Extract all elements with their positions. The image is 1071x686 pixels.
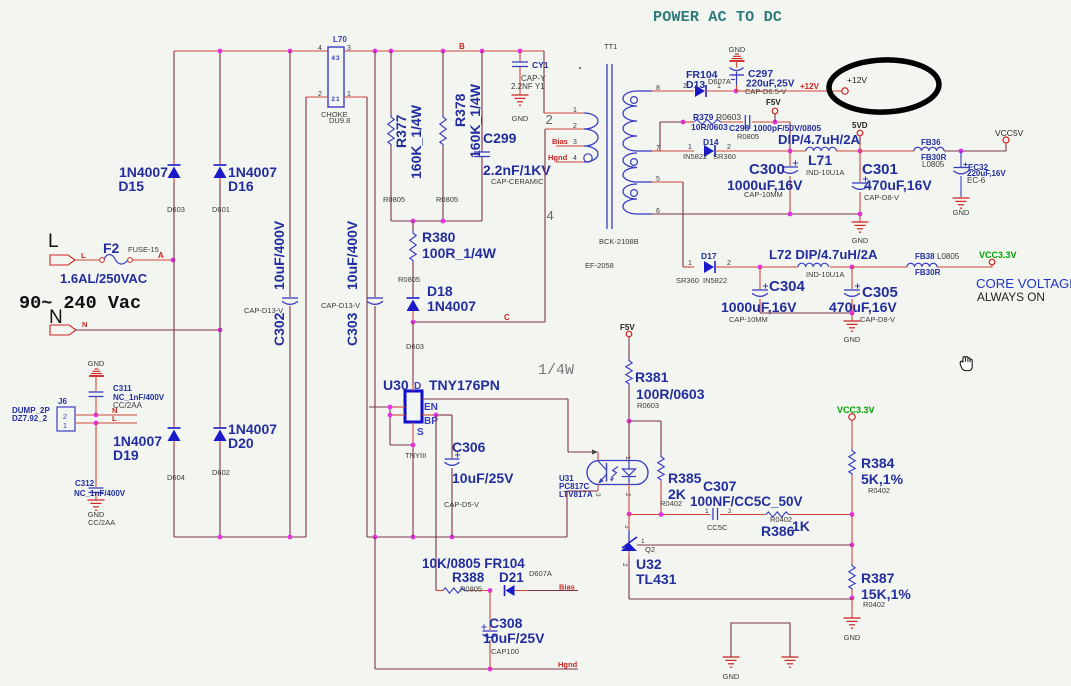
svg-text:DIP/4.7uH/2A: DIP/4.7uH/2A <box>778 132 861 147</box>
svg-text:FB38: FB38 <box>915 252 935 261</box>
ground below C312 <box>88 500 116 527</box>
svg-text:POWER AC TO DC: POWER AC TO DC <box>653 8 782 26</box>
diode D13 FR104 <box>686 69 736 97</box>
svg-text:D16: D16 <box>228 178 254 194</box>
svg-text:J6: J6 <box>58 397 67 406</box>
svg-text:D17: D17 <box>701 251 717 261</box>
svg-text:CAP-D8-V: CAP-D8-V <box>864 193 899 202</box>
svg-text:R0402: R0402 <box>868 486 890 495</box>
junction C306 bottom <box>450 535 455 540</box>
svg-text:1N4007: 1N4007 <box>427 298 476 314</box>
capacitor C299 2.2nF/1KV <box>474 51 551 221</box>
wire U30 EN to optocoupler <box>422 399 598 455</box>
svg-text:NC_1nF/400V: NC_1nF/400V <box>74 489 126 498</box>
junction C308 top <box>488 588 493 593</box>
svg-text:U32: U32 <box>636 556 662 572</box>
wire C304/C305 bottom <box>760 312 852 314</box>
wire pin 7 riser to snubber <box>652 122 683 151</box>
hand cursor annotation <box>960 357 972 371</box>
junction U30 source corner <box>411 443 416 448</box>
svg-text:D14: D14 <box>703 137 719 147</box>
junction C305 top <box>850 265 855 270</box>
svg-text:470uF,16V: 470uF,16V <box>864 177 932 193</box>
svg-text:10R/0603: 10R/0603 <box>691 122 728 132</box>
wire bridge column 1 (x=174) <box>173 51 175 537</box>
junction top rail at D16 <box>218 49 223 54</box>
junction R381 bottom <box>627 419 632 424</box>
junction R380 top <box>411 219 416 224</box>
junction C312 top <box>94 421 99 426</box>
svg-text:1: 1 <box>688 260 692 267</box>
inductor L71 DIP/4.7uH/2A <box>778 132 914 177</box>
junction top rail at R377 <box>389 49 394 54</box>
junction top rail at C299 <box>480 49 485 54</box>
resistor R388 10K/0805 <box>436 585 490 594</box>
junction L71 right / C301 / 5VD <box>858 149 863 154</box>
title POWER AC TO DC <box>653 8 782 26</box>
svg-text:S: S <box>417 427 424 438</box>
svg-text:3: 3 <box>573 139 577 146</box>
svg-text:R388: R388 <box>452 570 485 585</box>
svg-text:2: 2 <box>621 563 628 567</box>
diode D19 1N4007 <box>113 423 185 482</box>
svg-text:C302: C302 <box>271 312 287 346</box>
svg-text:L: L <box>112 414 117 423</box>
port +12V <box>842 75 868 94</box>
svg-text:R0603: R0603 <box>716 112 741 122</box>
resistor R386 1K <box>761 512 810 539</box>
wire C307 row <box>629 514 852 516</box>
wire divider mid to ref row <box>851 515 853 546</box>
wire bridge column 2 (x=220) <box>219 51 221 537</box>
wire U30 drain net <box>412 322 414 391</box>
annotation ellipse around +12V <box>828 58 940 114</box>
svg-text:1: 1 <box>688 144 692 151</box>
svg-text:CORE VOLTAGE: CORE VOLTAGE <box>976 276 1071 291</box>
grey marker 2 <box>546 112 553 127</box>
ground pin 6 rail <box>852 214 869 245</box>
svg-text:R380: R380 <box>422 229 456 245</box>
transformer TT1 secondary winding 7-5 <box>623 153 637 182</box>
svg-text:A: A <box>158 251 164 260</box>
resistor R381 100R/0603 <box>626 337 705 421</box>
svg-text:R0805: R0805 <box>737 132 759 141</box>
svg-text:IN5822: IN5822 <box>683 152 707 161</box>
svg-text:C312: C312 <box>75 479 95 488</box>
diode D16 1N4007 <box>212 160 277 214</box>
wire U30 source down <box>390 422 413 537</box>
svg-text:1/4W: 1/4W <box>538 362 574 379</box>
wire pin 7 row <box>652 144 694 151</box>
svg-text:1K: 1K <box>792 518 810 534</box>
transformer TT1 secondary winding 5-6 <box>623 184 637 214</box>
svg-text:Bias: Bias <box>559 583 575 592</box>
connector J6 DUMP_2P <box>12 397 75 431</box>
label 90~ 240 Vac <box>19 293 141 314</box>
svg-text:CAP100: CAP100 <box>491 647 519 656</box>
svg-text:D601: D601 <box>212 205 230 214</box>
svg-text:C: C <box>504 313 510 322</box>
junction U30 left pin lower <box>388 413 393 418</box>
wire pin 8 row <box>652 83 694 91</box>
svg-text:CAP-D6.5-V: CAP-D6.5-V <box>745 87 786 96</box>
wire Hgnd rail <box>375 660 578 669</box>
svg-text:F2: F2 <box>103 240 120 256</box>
svg-text:GND: GND <box>729 45 746 54</box>
port VCC5V <box>995 128 1024 143</box>
svg-text:GND: GND <box>88 359 105 368</box>
wire opto collector stub <box>597 452 599 461</box>
svg-text:4: 4 <box>573 155 577 162</box>
svg-text:CAP-CERAMIC: CAP-CERAMIC <box>491 177 544 186</box>
svg-text:2: 2 <box>63 412 67 421</box>
diode D18 1N4007 <box>406 283 476 351</box>
svg-text:TT1: TT1 <box>604 42 617 51</box>
capacitor C301 470uF,16V <box>852 151 932 214</box>
svg-text:D20: D20 <box>228 435 254 451</box>
svg-text:1: 1 <box>624 456 631 460</box>
transformer TT1 secondary winding 8-7 <box>623 91 637 151</box>
wire TL431 ref row <box>637 538 852 554</box>
svg-text:L70: L70 <box>333 35 347 44</box>
svg-text:D21: D21 <box>499 570 524 585</box>
svg-text:C301: C301 <box>862 161 898 178</box>
wire U30 BP <box>422 414 452 416</box>
inductor L72 DIP/4.7uH/2A <box>769 247 907 279</box>
svg-text:CC5C: CC5C <box>707 523 728 532</box>
wire choke pin 1 return (x=367) <box>344 97 367 537</box>
junction U30 source <box>411 535 416 540</box>
svg-text:1: 1 <box>573 107 577 114</box>
svg-text:5VD: 5VD <box>852 121 868 130</box>
diode D21 FR104 <box>505 583 579 597</box>
svg-text:100R/0603: 100R/0603 <box>636 386 705 402</box>
wire to +12V port <box>736 82 842 91</box>
resistor R378 160K_1/4W <box>436 51 483 221</box>
wire R381 to R385 <box>629 421 661 455</box>
svg-text:R0805: R0805 <box>383 195 405 204</box>
svg-text:2: 2 <box>546 112 553 127</box>
wire opto cathode down <box>628 483 630 514</box>
grey annotation 1/4W <box>538 362 574 379</box>
svg-text:10uF/25V: 10uF/25V <box>452 470 514 486</box>
svg-text:CAP-10MM: CAP-10MM <box>729 315 768 324</box>
svg-text:CAP-10MM: CAP-10MM <box>744 190 783 199</box>
svg-text:D: D <box>414 381 421 392</box>
capacitor C306 10uF/25V <box>444 415 514 537</box>
svg-text:R0603: R0603 <box>637 401 659 410</box>
port L (line input) <box>48 231 86 265</box>
svg-text:TNY176PN: TNY176PN <box>429 377 500 393</box>
junction C303 bottom <box>373 535 378 540</box>
junction C304 top <box>758 265 763 270</box>
wire fuse to node A <box>132 251 173 260</box>
svg-text:L: L <box>81 251 86 260</box>
capacitor C297 220uF,25V <box>730 61 795 96</box>
junction U30 left pin upper <box>388 405 393 410</box>
junction opto cathode / C307 row <box>627 512 632 517</box>
svg-text:FB36: FB36 <box>921 138 941 147</box>
svg-text:Hgnd: Hgnd <box>548 153 568 162</box>
svg-text:CAP-D8-V: CAP-D8-V <box>860 315 895 324</box>
svg-text:C308: C308 <box>489 615 523 631</box>
junction C308 bottom <box>488 667 493 672</box>
transformer TT1 label <box>604 42 617 51</box>
wire J6 pin 2 net N <box>75 406 137 415</box>
svg-text:160K_1/4W: 160K_1/4W <box>408 104 424 179</box>
transformer TT1 core <box>579 64 612 229</box>
svg-text:10uF/25V: 10uF/25V <box>483 630 545 646</box>
capacitor CY1 2.2NF Y1 <box>511 51 549 95</box>
svg-text:1.6AL/250VAC: 1.6AL/250VAC <box>60 271 148 286</box>
svg-text:10uF/400V: 10uF/400V <box>271 220 287 290</box>
svg-text:CAP-D13-V: CAP-D13-V <box>321 301 360 310</box>
ground above C297 <box>729 45 746 61</box>
label 10K/0805 FR104 <box>422 556 552 585</box>
ground below EC32 <box>953 198 970 217</box>
junction top rail at C303 <box>373 49 378 54</box>
svg-text:D19: D19 <box>113 447 139 463</box>
junction D20 bottom <box>218 535 223 540</box>
ground bottom right <box>782 657 799 667</box>
capacitor C302 10uF/400V <box>244 51 298 537</box>
wire bottom rail left (bridge return) <box>174 536 306 538</box>
junction C297 tap <box>734 89 739 94</box>
svg-text:EF-2058: EF-2058 <box>585 261 614 270</box>
transformer secondary pin stubs <box>637 85 660 215</box>
wire N to bridge <box>76 329 220 331</box>
svg-text:TL431: TL431 <box>636 571 677 587</box>
svg-text:D603: D603 <box>406 342 424 351</box>
svg-text:D607A: D607A <box>708 77 731 86</box>
svg-text:N: N <box>49 307 63 328</box>
svg-text:R0402: R0402 <box>660 499 682 508</box>
ground above C311 <box>88 359 105 376</box>
svg-text:GND: GND <box>844 335 861 344</box>
wire pin 5 riser <box>652 182 694 267</box>
svg-text:Hgnd: Hgnd <box>558 660 578 669</box>
svg-text:CAP-D13-V: CAP-D13-V <box>244 306 283 315</box>
svg-text:2: 2 <box>624 493 631 497</box>
svg-text:10uF/400V: 10uF/400V <box>344 220 360 290</box>
svg-text:1: 1 <box>63 421 67 430</box>
svg-text:R384: R384 <box>861 455 895 471</box>
junction EC32 tap <box>959 149 964 154</box>
svg-text:R0805: R0805 <box>436 195 458 204</box>
svg-text:2: 2 <box>727 144 731 151</box>
junction C311 bottom <box>94 413 99 418</box>
svg-text:C299: C299 <box>483 130 517 146</box>
svg-text:90~ 240 Vac: 90~ 240 Vac <box>19 293 141 314</box>
junction TL431 ref <box>850 543 855 548</box>
wire snubber right leg <box>789 122 791 151</box>
wire pin 6 row <box>652 213 860 215</box>
svg-text:EN: EN <box>424 402 438 413</box>
port VCC3.3V feedback <box>837 405 875 420</box>
wire Hgnd link <box>374 537 376 669</box>
junction snubber left <box>681 120 686 125</box>
capacitor C298 1000pF/50V <box>729 115 821 141</box>
transformer TT1 primary pins <box>544 107 584 162</box>
svg-text:D602: D602 <box>212 468 230 477</box>
junction top rail at CY1 <box>518 49 523 54</box>
svg-text:CC/2AA: CC/2AA <box>88 518 115 527</box>
svg-text:CY1: CY1 <box>532 60 549 70</box>
svg-text:2.2nF/1KV: 2.2nF/1KV <box>483 162 551 178</box>
svg-text:VCC3.3V: VCC3.3V <box>837 405 875 415</box>
svg-text:R385: R385 <box>668 470 702 486</box>
svg-text:3: 3 <box>347 45 351 52</box>
svg-text:R386: R386 <box>761 523 795 539</box>
wire top rail left segment (bridge + to choke pin 4) <box>174 50 328 52</box>
svg-text:43: 43 <box>331 55 340 62</box>
junction BP node <box>434 413 439 418</box>
svg-text:CAP-D5-V: CAP-D5-V <box>444 500 479 509</box>
transformer TT1 part numbers <box>585 237 639 270</box>
svg-text:SR360: SR360 <box>713 152 736 161</box>
resistor R377 160K_1/4W <box>383 51 424 221</box>
svg-text:2: 2 <box>727 260 731 267</box>
capacitor C300 1000uF,16V <box>727 151 803 214</box>
svg-text:C303: C303 <box>344 312 360 346</box>
junction top rail at R378 <box>441 49 446 54</box>
svg-text:GND: GND <box>953 208 970 217</box>
svg-text:1: 1 <box>641 538 645 545</box>
wire net C (D18 to transformer pin 2) <box>413 129 545 322</box>
svg-text:F5V: F5V <box>766 98 781 107</box>
svg-text:4: 4 <box>318 45 322 52</box>
svg-text:N: N <box>82 320 87 329</box>
junction R378 bottom <box>441 219 446 224</box>
ground below CY1 <box>512 95 529 123</box>
svg-text:VCC5V: VCC5V <box>995 128 1024 138</box>
svg-text:4: 4 <box>547 208 554 223</box>
wire opto anode <box>628 421 630 460</box>
svg-text:R0805: R0805 <box>398 275 420 284</box>
capacitor C304 1000uF,16V <box>721 267 806 324</box>
svg-text:2: 2 <box>728 508 732 515</box>
svg-text:L0805: L0805 <box>922 160 945 169</box>
junction C300 bottom <box>788 212 793 217</box>
svg-text:SR360: SR360 <box>676 276 699 285</box>
wire opto emitter to source rail <box>567 485 598 538</box>
svg-text:IND-10U1A: IND-10U1A <box>806 270 844 279</box>
svg-text:L71: L71 <box>808 152 832 168</box>
wire R377/R378/C299 bottom row <box>391 220 482 222</box>
junction snubber/C300 at 5V row <box>788 149 793 154</box>
wire U30 left pins tie <box>369 407 405 445</box>
svg-text:GND: GND <box>844 633 861 642</box>
svg-text:2.2NF Y1: 2.2NF Y1 <box>511 82 545 91</box>
svg-text:ALWAYS ON: ALWAYS ON <box>977 290 1045 304</box>
svg-text:GND: GND <box>852 236 869 245</box>
svg-text:R0402: R0402 <box>863 600 885 609</box>
grey marker 4 <box>547 208 554 223</box>
resistor R384 5K,1% <box>849 420 904 515</box>
svg-text:Q2: Q2 <box>645 545 655 554</box>
ferrite bead FB36 <box>860 138 1006 169</box>
svg-text:FUSE-15: FUSE-15 <box>128 245 159 254</box>
svg-text:C311: C311 <box>113 384 132 393</box>
svg-text:L0805: L0805 <box>937 252 960 261</box>
capacitor C308 10uF/25V <box>481 591 545 670</box>
svg-text:R387: R387 <box>861 570 895 586</box>
capacitor C312 NC_1nF/400V <box>74 423 126 500</box>
svg-text:EC-6: EC-6 <box>967 176 986 185</box>
port N (neutral input) <box>49 307 87 335</box>
wire choke pin 2 return (x=306) <box>306 97 328 537</box>
node N junction <box>218 328 223 333</box>
wire top rail right segment (choke pin 3 to transformer pin 1), node B <box>344 42 544 113</box>
wire BP to R388 (x=436) <box>435 415 437 591</box>
svg-text:R377: R377 <box>393 114 409 148</box>
ferrite bead FB38 <box>852 252 992 277</box>
svg-text:IN5822: IN5822 <box>703 276 727 285</box>
svg-text:D607A: D607A <box>529 569 552 578</box>
svg-text:5K,1%: 5K,1% <box>861 471 904 487</box>
svg-text:GND: GND <box>512 114 529 123</box>
junction divider mid <box>850 512 855 517</box>
svg-text:D15: D15 <box>118 178 144 194</box>
svg-text:1: 1 <box>705 508 709 515</box>
svg-text:Bias: Bias <box>552 137 568 146</box>
svg-text:FB30R: FB30R <box>915 268 941 277</box>
capacitor EC32 220uF,16V <box>954 151 1007 197</box>
optocoupler U31 PC817C <box>559 456 648 529</box>
svg-text:+12V: +12V <box>800 82 820 91</box>
port 5VD <box>852 121 868 151</box>
svg-text:DU9.8: DU9.8 <box>329 116 350 125</box>
svg-text:DZ7.92_2: DZ7.92_2 <box>12 414 48 423</box>
svg-text:C307: C307 <box>703 478 737 494</box>
junction C305 bottom / GND <box>850 311 855 316</box>
port F5V upper <box>766 98 781 122</box>
fuse F2 <box>60 240 159 286</box>
junction R385 bottom <box>659 512 664 517</box>
junction C302 bottom <box>288 535 293 540</box>
svg-text:3: 3 <box>594 493 601 497</box>
shunt regulator U32 TL431 <box>621 514 677 587</box>
junction C301 bottom / GND <box>858 212 863 217</box>
label CORE VOLTAGE / ALWAYS ON <box>976 276 1071 304</box>
diode D14 IN5822/SR360 <box>683 137 806 161</box>
svg-text:D18: D18 <box>427 283 453 299</box>
svg-text:VCC3.3V: VCC3.3V <box>979 250 1017 260</box>
choke L70 <box>318 35 351 125</box>
junction top rail at C302 <box>288 49 293 54</box>
svg-text:U30: U30 <box>383 377 409 393</box>
ground below C305 <box>844 313 861 344</box>
svg-text:L72 DIP/4.7uH/2A: L72 DIP/4.7uH/2A <box>769 247 878 262</box>
capacitor C311 NC_1nF/400V <box>89 376 165 415</box>
svg-text:GND: GND <box>723 672 740 681</box>
svg-text:B: B <box>459 42 465 51</box>
svg-text:D13: D13 <box>686 79 705 91</box>
junction F5V tap <box>773 120 778 125</box>
svg-text:10K/0805 FR104: 10K/0805 FR104 <box>422 556 525 571</box>
diode D20 1N4007 <box>212 421 277 477</box>
svg-text:C304: C304 <box>769 278 806 295</box>
svg-text:TNYIII: TNYIII <box>405 451 426 460</box>
wire ground bridge U-shape <box>731 623 790 657</box>
svg-text:F5V: F5V <box>620 323 635 332</box>
svg-text:R381: R381 <box>635 369 669 385</box>
port F5V lower <box>620 323 635 337</box>
ic U30 TNY176PN <box>383 377 500 460</box>
svg-text:L: L <box>48 231 59 252</box>
capacitor C303 10uF/400V <box>321 51 383 537</box>
wire J6 pin 1 net L <box>75 414 137 423</box>
